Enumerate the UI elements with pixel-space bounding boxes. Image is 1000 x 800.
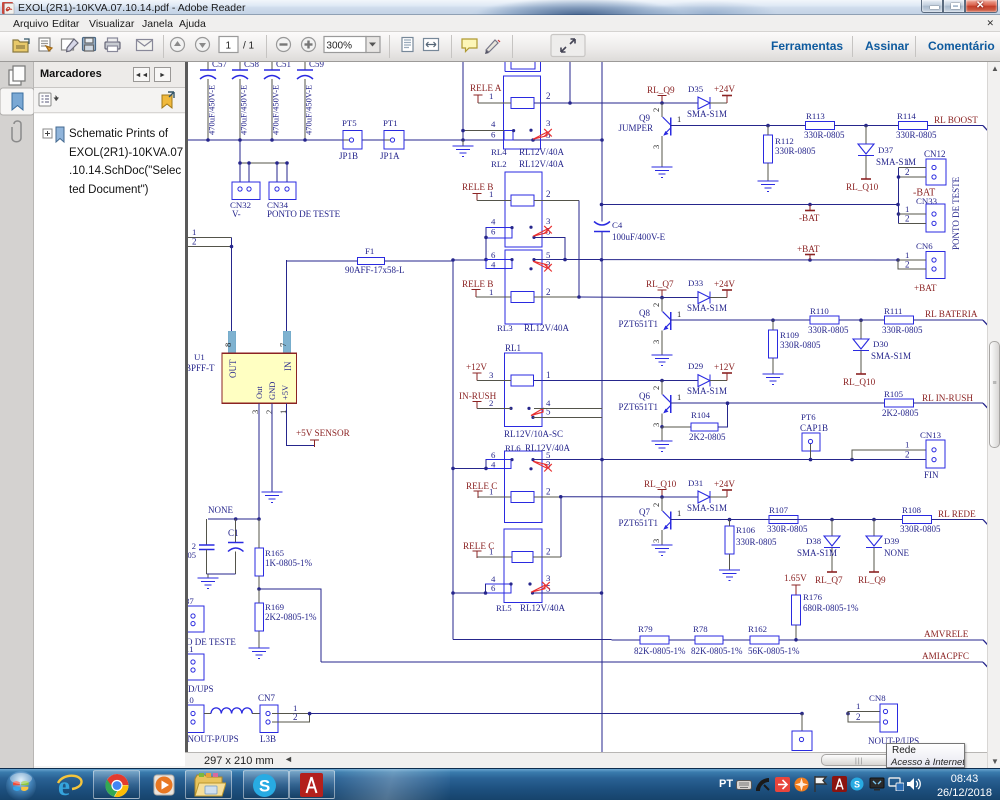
sign pen	[485, 40, 500, 54]
svg-text:C1: C1	[228, 528, 239, 538]
svg-text:D31: D31	[688, 478, 703, 488]
wire RL1 pin4	[534, 407, 602, 409]
power RELE A	[470, 83, 502, 102]
resistor R78	[691, 624, 743, 656]
capacitor C59	[297, 59, 325, 140]
net RL IN-RUSH	[914, 393, 990, 410]
svg-text:R110: R110	[810, 306, 829, 316]
wire RL5 contact feed	[451, 584, 487, 595]
power +24V at D31	[714, 479, 735, 497]
svg-text:1K-0805-1%: 1K-0805-1%	[265, 558, 312, 568]
svg-text:Assinar: Assinar	[865, 39, 909, 53]
svg-text:680R-0805-1%: 680R-0805-1%	[803, 603, 859, 613]
svg-text:RL_Q7: RL_Q7	[646, 279, 674, 289]
tray	[719, 778, 733, 790]
svg-text:90AFF-17x58-L: 90AFF-17x58-L	[345, 265, 405, 275]
resistor R169	[255, 589, 317, 648]
ground U1 GND	[262, 492, 283, 503]
capacitor C2 (edge)	[188, 519, 215, 574]
ground at bus	[453, 140, 474, 157]
wire Q9 collector row	[671, 124, 806, 128]
mail icon	[137, 40, 153, 51]
test point PT5 JP1B	[339, 118, 362, 161]
wire AMIACPFC row	[321, 662, 990, 669]
svg-text:V-: V-	[232, 209, 241, 219]
relay RL1 RL12V/10A-SC	[489, 343, 563, 439]
svg-text:2: 2	[546, 487, 551, 497]
wire U1 pin2 GND	[271, 403, 273, 492]
svg-text:1: 1	[905, 250, 909, 260]
connector CN33	[899, 188, 946, 233]
wire RELE C to RL6 coil	[478, 491, 511, 497]
svg-text:RL_Q9: RL_Q9	[647, 85, 675, 95]
svg-text:Comentário: Comentário	[928, 39, 995, 53]
window title bar	[0, 0, 1000, 15]
svg-text:SMA-S1M: SMA-S1M	[876, 157, 916, 167]
diode D38	[797, 520, 840, 570]
diode D30	[853, 320, 911, 372]
junction Q7 base	[660, 490, 664, 499]
svg-text:330R-0805: 330R-0805	[775, 146, 816, 156]
svg-text:RL4: RL4	[491, 147, 507, 157]
svg-text:2: 2	[293, 712, 298, 722]
svg-text:U1: U1	[194, 352, 205, 362]
svg-text:+5V: +5V	[280, 384, 290, 400]
svg-text:330R-0805: 330R-0805	[736, 537, 777, 547]
skype icon	[252, 773, 277, 798]
svg-text:R112: R112	[775, 136, 794, 146]
power IN-RUSH	[459, 391, 497, 409]
svg-text:SMA-S1M: SMA-S1M	[687, 503, 727, 513]
resistor R112	[764, 126, 817, 181]
power RL_Q10 at D37	[846, 177, 879, 192]
svg-text:2: 2	[651, 303, 661, 307]
power +5V SENSOR	[296, 428, 351, 447]
wire Q7 emitter	[661, 530, 663, 545]
svg-text:D35: D35	[688, 84, 704, 94]
wire Q6 collector row	[671, 401, 885, 405]
svg-text:+BAT: +BAT	[797, 244, 820, 254]
svg-text:D39: D39	[884, 536, 900, 546]
wire RL6 coil pin2 to Q7 base	[534, 495, 662, 557]
power RL_Q7	[646, 279, 674, 297]
svg-text:SMA-S1M: SMA-S1M	[687, 386, 727, 396]
capacitor C1	[228, 519, 244, 574]
svg-text:2: 2	[546, 547, 551, 557]
connector CN32	[230, 182, 260, 219]
svg-text:Q6: Q6	[639, 391, 650, 401]
svg-text:R111: R111	[884, 306, 902, 316]
svg-text:1: 1	[677, 392, 681, 402]
svg-text:RL IN-RUSH: RL IN-RUSH	[922, 393, 973, 403]
wire Q8 collector row	[671, 318, 811, 322]
resistor R108	[900, 505, 941, 534]
wire AMVRELE row	[640, 638, 990, 647]
net RL REDE	[932, 509, 990, 527]
svg-text:330R-0805: 330R-0805	[804, 130, 845, 140]
ground R169	[249, 648, 270, 659]
svg-text:/ 1: / 1	[243, 41, 255, 52]
capacitor C4	[594, 220, 666, 242]
svg-text:R105: R105	[884, 389, 904, 399]
wire vertical to page top at x463	[462, 62, 464, 140]
power +24V at D33	[714, 279, 735, 298]
svg-text:-D/UPS: -D/UPS	[188, 684, 214, 694]
svg-text:D33: D33	[688, 278, 704, 288]
svg-text:+12V: +12V	[714, 362, 735, 372]
svg-text:SMA-S1M: SMA-S1M	[797, 548, 837, 558]
junction dots top bus	[206, 138, 604, 142]
svg-text:2: 2	[905, 214, 910, 224]
compose icon	[62, 39, 79, 52]
wire main vertical bus x602	[601, 62, 603, 752]
junction R165 R169	[257, 587, 261, 591]
wire RL3 coil pin2 to Q8 base	[534, 295, 662, 299]
svg-text:CN13: CN13	[920, 430, 942, 440]
svg-text:1: 1	[192, 227, 196, 237]
svg-text:S: S	[259, 777, 270, 796]
svg-text:2: 2	[905, 450, 910, 460]
fullscreen icon button	[551, 35, 585, 57]
wire AMIACPFC feed	[259, 589, 321, 662]
resistor R104	[660, 403, 727, 442]
svg-text:1: 1	[905, 204, 909, 214]
resistor R79	[634, 624, 686, 656]
connector CN10 (edge)	[181, 695, 239, 744]
svg-text:Q8: Q8	[639, 308, 650, 318]
junction Q9 base	[660, 96, 664, 105]
svg-text:470uF/450V-E: 470uF/450V-E	[207, 85, 217, 135]
wire U1 pin3 Out	[258, 403, 260, 519]
svg-text:CN7: CN7	[258, 693, 276, 703]
toolbar	[0, 32, 1000, 62]
svg-text:RL12V/40A: RL12V/40A	[520, 603, 566, 613]
svg-text:1: 1	[546, 370, 551, 380]
svg-text:PONTO DE TESTE: PONTO DE TESTE	[951, 176, 961, 250]
svg-text:PT1: PT1	[383, 118, 398, 128]
svg-text:NONE: NONE	[884, 548, 909, 558]
wire RL5 coil pin2	[533, 556, 561, 558]
svg-text:O DE TESTE: O DE TESTE	[188, 637, 236, 647]
svg-text:NONE: NONE	[208, 505, 233, 515]
svg-text:L3B: L3B	[260, 734, 276, 744]
svg-text:AMIACPFC: AMIACPFC	[922, 651, 969, 661]
wire vertical to page top at x570	[568, 62, 572, 105]
svg-text:RL12V/40A: RL12V/40A	[524, 323, 570, 333]
svg-text:3: 3	[546, 573, 551, 583]
pin highlight U1 pin 8	[223, 331, 236, 353]
svg-text:R165: R165	[265, 548, 285, 558]
svg-text:1: 1	[905, 440, 909, 450]
wire RL4 coil to Q9 base	[534, 102, 698, 104]
inductor L3B	[204, 708, 276, 744]
connector CN11 (edge)	[181, 644, 214, 694]
svg-text:+24V: +24V	[714, 279, 735, 289]
svg-text:/NOUT-P/UPS: /NOUT-P/UPS	[188, 734, 239, 744]
svg-text:C57: C57	[212, 62, 228, 69]
svg-text:RL12V/40A: RL12V/40A	[519, 147, 565, 157]
svg-text:RL5: RL5	[496, 603, 512, 613]
transistor Q6	[619, 381, 682, 427]
svg-text:RL12V/10A-SC: RL12V/10A-SC	[504, 429, 563, 439]
connector CN6	[898, 241, 945, 293]
svg-text:82K-0805-1%: 82K-0805-1%	[634, 646, 686, 656]
svg-text:+24V: +24V	[714, 479, 735, 489]
svg-text:SMA-S1M: SMA-S1M	[687, 109, 727, 119]
svg-text:RL REDE: RL REDE	[938, 509, 976, 519]
svg-text:3: 3	[651, 145, 661, 149]
transistor Q7	[619, 497, 682, 543]
wire RL5 pin5 to bus	[533, 591, 604, 595]
svg-text:2: 2	[905, 260, 910, 270]
wire RL2 RL3 contact left link	[484, 228, 488, 269]
transistor Q8	[619, 298, 682, 344]
svg-text:05: 05	[188, 550, 196, 560]
resistor R162	[748, 624, 800, 656]
svg-text:IN-RUSH: IN-RUSH	[459, 391, 497, 401]
IE icon	[55, 771, 85, 799]
svg-text:C51: C51	[276, 62, 291, 69]
svg-text:6: 6	[491, 250, 496, 260]
power RELE B second	[462, 279, 493, 297]
wire RELE C to RL5 coil	[477, 551, 512, 557]
power +12V at RL1	[466, 362, 487, 380]
svg-text:RL_Q10: RL_Q10	[644, 479, 677, 489]
wire +BAT bus	[451, 258, 900, 262]
svg-text:1: 1	[225, 41, 231, 52]
svg-text:37: 37	[188, 596, 194, 606]
wire left bus x453	[452, 261, 454, 640]
power RL_Q10 at D30	[843, 372, 876, 387]
svg-text:330R-0805: 330R-0805	[896, 130, 937, 140]
svg-text:RL BOOST: RL BOOST	[934, 115, 978, 125]
wire IN-RUSH to RL1 pin2	[477, 402, 511, 409]
svg-text:RELE C: RELE C	[466, 481, 497, 491]
svg-text:BPFF-T: BPFF-T	[188, 363, 215, 373]
test point PT bottom	[792, 714, 812, 751]
wire +12V to RL1 coil	[477, 373, 511, 381]
wire RL1 pin1 to Q6 base	[533, 379, 663, 383]
diode D33	[662, 278, 727, 313]
svg-text:RL2: RL2	[491, 159, 507, 169]
transistor Q9	[618, 103, 681, 149]
wire pins 1 2 from left connector to U1	[188, 227, 233, 331]
svg-text:CN33: CN33	[916, 196, 938, 206]
wire C1 C2 to ground	[207, 574, 236, 578]
svg-text:Out: Out	[254, 386, 264, 399]
connector CN37 (edge)	[181, 596, 236, 647]
diode D37	[858, 126, 916, 177]
wire RL2 pin5 link	[534, 237, 567, 261]
wire -BAT bus	[600, 203, 900, 207]
svg-text:RELE C: RELE C	[463, 541, 494, 551]
svg-text:300%: 300%	[326, 41, 352, 52]
svg-text:330R-0805: 330R-0805	[780, 340, 821, 350]
power RL_Q9 at D39	[858, 570, 886, 585]
svg-text:GND: GND	[267, 382, 277, 400]
svg-text:RL6: RL6	[505, 443, 521, 453]
adobe reader icon	[300, 773, 323, 797]
svg-text:1.65V: 1.65V	[784, 573, 807, 583]
svg-text:2: 2	[651, 503, 661, 507]
connector CN7	[258, 693, 310, 732]
svg-text:1: 1	[677, 114, 681, 124]
svg-text:R176: R176	[803, 592, 823, 602]
ground R109	[763, 374, 784, 385]
svg-text:R113: R113	[806, 111, 825, 121]
svg-text:330R-0805: 330R-0805	[767, 524, 808, 534]
svg-text:Q7: Q7	[639, 507, 650, 517]
svg-text:330R-0805: 330R-0805	[882, 325, 923, 335]
wire R113 to R114	[835, 124, 899, 128]
capacitor C51	[264, 59, 291, 140]
capacitor C58	[232, 59, 260, 140]
nav up	[171, 38, 185, 52]
svg-text:IN: IN	[283, 361, 293, 371]
svg-text:1: 1	[677, 508, 681, 518]
svg-text:JP1A: JP1A	[380, 151, 400, 161]
svg-text:CN6: CN6	[916, 241, 933, 251]
wire RL2 coil pin2 to RL3	[534, 201, 579, 297]
print icon	[105, 38, 120, 52]
ground R112	[758, 181, 779, 192]
left sidebar	[0, 62, 185, 768]
relay RL3 RL12V/40A	[486, 250, 570, 333]
svg-text:2: 2	[546, 91, 551, 101]
resistor R110	[808, 306, 849, 335]
node NONE	[208, 505, 261, 521]
power RELE B	[462, 182, 493, 201]
svg-text:11: 11	[188, 644, 193, 654]
svg-text:1: 1	[856, 701, 860, 711]
svg-text:3: 3	[546, 216, 551, 226]
svg-text:82K-0805-1%: 82K-0805-1%	[691, 646, 743, 656]
wire F1 input from U1 IN	[286, 260, 288, 331]
svg-text:10: 10	[188, 695, 194, 705]
wire top bus V- node	[188, 139, 602, 141]
diode D35	[687, 84, 727, 119]
status bar	[185, 752, 987, 768]
wire RELE B to RL2 coil	[477, 194, 511, 201]
svg-text:3: 3	[489, 370, 494, 380]
svg-text:+12V: +12V	[466, 362, 487, 372]
svg-text:PZT651T1: PZT651T1	[619, 518, 659, 528]
svg-text:C4: C4	[612, 220, 623, 230]
svg-text:56K-0805-1%: 56K-0805-1%	[748, 646, 800, 656]
svg-text:2: 2	[546, 287, 551, 297]
svg-text:Ferramentas: Ferramentas	[771, 39, 843, 53]
svg-text:3: 3	[651, 539, 661, 543]
svg-text:PT5: PT5	[342, 118, 357, 128]
svg-text:D30: D30	[873, 339, 889, 349]
svg-text:2: 2	[651, 386, 661, 390]
power +12V at D29	[714, 362, 735, 381]
connector CN12	[897, 149, 946, 223]
svg-text:JP1B: JP1B	[339, 151, 358, 161]
svg-text:C59: C59	[309, 62, 325, 69]
svg-text:R169: R169	[265, 602, 285, 612]
connector CN34	[267, 182, 341, 219]
pdf create icon	[39, 38, 52, 51]
power +BAT	[797, 244, 820, 260]
connector CN8	[868, 693, 919, 746]
svg-text:RL12V/40A: RL12V/40A	[519, 159, 565, 169]
power RELE C second	[463, 541, 494, 558]
wire Q6 emitter ground	[661, 427, 663, 441]
wire Q7 collector row	[671, 518, 903, 522]
pin highlight U1 pin 7	[278, 331, 291, 353]
svg-text:R106: R106	[736, 525, 756, 535]
svg-text:RL1: RL1	[505, 343, 521, 353]
save icon	[83, 38, 96, 52]
ground Q7	[652, 545, 673, 556]
page view icons	[402, 38, 413, 52]
tooltip	[886, 743, 965, 768]
svg-text:F1: F1	[365, 246, 374, 256]
wire RELE A to RL4 coil	[478, 95, 511, 103]
svg-text:PZT651T1: PZT651T1	[619, 319, 659, 329]
resistor R113	[804, 111, 845, 140]
wire Q9 emitter to ground	[661, 136, 663, 167]
svg-text:470uF/450V-E: 470uF/450V-E	[271, 85, 281, 135]
svg-text:1: 1	[677, 309, 681, 319]
relay RL partial at top	[505, 58, 541, 72]
power RL_Q10 at Q7	[644, 479, 677, 497]
svg-text:CN12: CN12	[924, 149, 946, 159]
svg-text:2: 2	[546, 189, 551, 199]
folder icon	[193, 772, 226, 799]
relay RL2 RL12V/40A	[486, 159, 565, 247]
svg-text:2K2-0805-1%: 2K2-0805-1%	[265, 612, 317, 622]
media player icon	[152, 773, 176, 797]
net AMVRELE	[924, 629, 969, 639]
wire RL4 pin4	[461, 129, 504, 133]
svg-text:3: 3	[651, 340, 661, 344]
svg-text:+BAT: +BAT	[914, 283, 937, 293]
ground Q6	[652, 441, 673, 452]
svg-text:JUMPER: JUMPER	[618, 123, 653, 133]
ground R106	[719, 570, 740, 581]
svg-text:R107: R107	[769, 505, 789, 515]
connector CN13	[850, 430, 945, 480]
ground Q9	[652, 167, 673, 178]
svg-text:100uF/400V-E: 100uF/400V-E	[612, 232, 666, 242]
ground capacitors	[198, 578, 219, 589]
svg-text:4: 4	[491, 217, 496, 227]
svg-text:6: 6	[491, 450, 496, 460]
comment bubble	[462, 39, 477, 52]
svg-text:5: 5	[546, 450, 551, 460]
svg-text:-BAT: -BAT	[799, 213, 820, 223]
svg-text:RL3: RL3	[497, 323, 513, 333]
svg-text:2: 2	[856, 712, 861, 722]
svg-text:3: 3	[546, 118, 551, 128]
resistor R111	[882, 306, 923, 335]
svg-text:R162: R162	[748, 624, 767, 634]
svg-text:RL_Q10: RL_Q10	[846, 182, 879, 192]
net RL BOOST	[928, 115, 990, 133]
svg-text:D38: D38	[806, 536, 822, 546]
wire R110 R111	[839, 318, 885, 322]
resistor R114	[896, 111, 937, 140]
wire Q8 emitter	[661, 331, 663, 355]
svg-text:330R-0805: 330R-0805	[808, 325, 849, 335]
svg-text:RELE B: RELE B	[462, 279, 493, 289]
svg-text:PZT651T1: PZT651T1	[619, 402, 659, 412]
resistor R106	[725, 520, 777, 570]
svg-text:S: S	[854, 780, 860, 790]
power RL_Q7 at D38	[815, 570, 843, 585]
